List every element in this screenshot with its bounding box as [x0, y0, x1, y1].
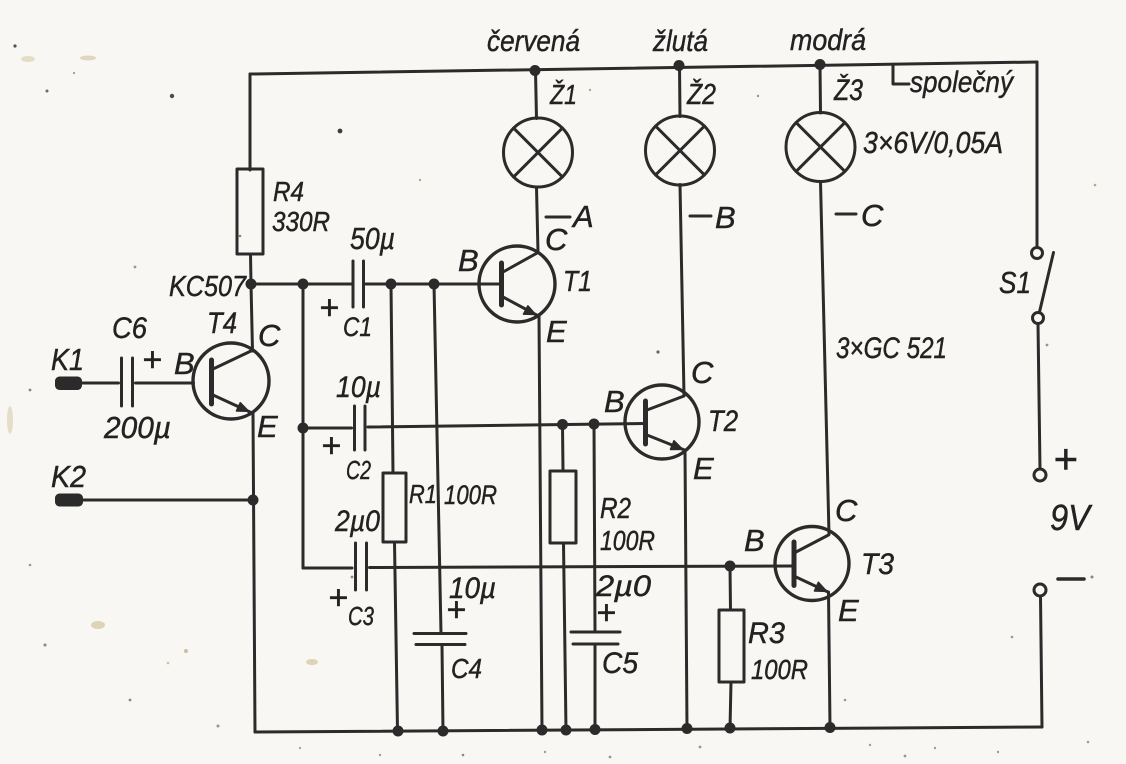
wire line3 right of C3 to T3 base: [370, 566, 793, 568]
wire lamp Z3 stem: [819, 64, 823, 113]
switch S1: [1032, 248, 1054, 324]
terminal K1: [55, 377, 82, 391]
svg-text:K1: K1: [51, 342, 84, 377]
svg-text:B: B: [715, 200, 736, 235]
svg-text:T4: T4: [207, 307, 237, 340]
wire R3 top feed: [729, 566, 733, 610]
wire top supply rail: [250, 62, 1037, 74]
battery connector 9V: [1034, 469, 1084, 596]
svg-text:10µ: 10µ: [336, 371, 381, 404]
svg-text:Ž2: Ž2: [686, 78, 716, 111]
node dot rail / T2 emitter: [682, 723, 693, 734]
transistor T4: [193, 343, 269, 419]
svg-text:100R: 100R: [600, 525, 655, 556]
svg-text:R3: R3: [748, 617, 785, 650]
svg-text:+: +: [328, 579, 348, 617]
svg-text:C: C: [861, 198, 884, 233]
svg-text:červená: červená: [487, 25, 580, 58]
capacitor C5: [571, 632, 620, 644]
svg-text:B: B: [604, 384, 625, 419]
lamp Z3: [786, 113, 855, 182]
resistor R3: [719, 610, 744, 682]
wire lamp Z2 to T2 collector: [680, 185, 684, 396]
svg-text:+: +: [596, 594, 616, 632]
wire R1 top feed: [391, 284, 393, 473]
node dot T1 base / C4: [429, 279, 440, 290]
wire T1 emitter to ground rail: [539, 316, 542, 730]
node dot line2 / C5: [589, 419, 600, 430]
svg-text:50µ: 50µ: [350, 221, 395, 256]
svg-text:200µ: 200µ: [103, 410, 171, 445]
label dash B: [690, 215, 711, 218]
wire battery minus down to rail: [1041, 596, 1043, 727]
node dot rail / C5: [590, 724, 601, 735]
lamp Z1: [504, 118, 573, 187]
terminal K2: [55, 494, 83, 507]
svg-text:C2: C2: [346, 455, 371, 485]
svg-text:Ž3: Ž3: [833, 74, 863, 107]
wire lamp Z2 stem: [678, 66, 682, 117]
svg-text:R4: R4: [273, 176, 304, 207]
svg-text:modrá: modrá: [790, 24, 866, 57]
node dot line3 / R3: [725, 561, 736, 572]
svg-text:E: E: [693, 451, 714, 486]
svg-text:T3: T3: [861, 548, 894, 581]
svg-text:B: B: [458, 243, 479, 278]
svg-text:E: E: [257, 409, 278, 444]
svg-text:C3: C3: [348, 601, 374, 631]
label dash A: [546, 216, 570, 219]
wire R4 bottom to node: [249, 254, 253, 284]
node dot rail / R1: [393, 726, 404, 737]
capacitor C2: [355, 406, 366, 450]
svg-text:B: B: [744, 523, 765, 558]
wire K2 to emitter column: [83, 499, 253, 502]
node dot KC507 node x303: [298, 279, 309, 290]
wire T4 emitter down left side: [253, 413, 255, 732]
svg-text:330R: 330R: [272, 206, 330, 237]
capacitor C1: [353, 261, 364, 307]
wire R3 bottom: [730, 682, 731, 728]
wire K1 to C6: [82, 382, 119, 385]
wire lamp Z3 to T3 collector: [821, 182, 830, 535]
svg-text:E: E: [546, 314, 567, 349]
svg-text:+: +: [142, 341, 162, 379]
wire R2 bottom: [564, 543, 567, 730]
node dot rail / C4: [438, 726, 449, 737]
wire right vertical to switch: [1036, 62, 1039, 248]
svg-text:C: C: [545, 222, 568, 257]
wire T3 emitter to ground rail: [829, 592, 831, 728]
svg-text:100R: 100R: [751, 654, 808, 685]
transistor T2: [625, 385, 699, 459]
wire line2 right of C2 to T2 base: [368, 424, 645, 428]
svg-text:S1: S1: [999, 265, 1031, 300]
svg-text:C5: C5: [602, 647, 638, 680]
node dot T1 base / R1: [386, 279, 397, 290]
svg-text:3×GC 521: 3×GC 521: [836, 332, 947, 365]
wire lamp Z1 stem: [536, 71, 537, 119]
node dot rail / R2: [561, 725, 572, 736]
svg-text:C: C: [258, 318, 281, 353]
node dot top rail / lamp Z3: [815, 59, 826, 70]
capacitor C4: [414, 634, 466, 645]
wire node line1 left of C1: [251, 283, 351, 286]
svg-text:C: C: [835, 493, 858, 528]
svg-text:žlutá: žlutá: [652, 25, 708, 58]
svg-text:E: E: [838, 593, 859, 628]
svg-text:B: B: [174, 346, 195, 381]
node dot K2 emitter column: [248, 495, 259, 506]
svg-text:2µ0: 2µ0: [334, 505, 380, 538]
node dot rail / T3 emitter: [825, 722, 836, 733]
svg-text:A: A: [571, 199, 594, 234]
capacitor C3: [356, 543, 367, 590]
resistor R1: [383, 473, 406, 542]
bracket for spolecny label: [893, 65, 909, 84]
svg-text:100R: 100R: [444, 480, 497, 510]
lamp Z2: [646, 116, 715, 185]
svg-text:+: +: [446, 591, 466, 629]
wire T4 collector: [251, 284, 253, 351]
node dot top rail / lamp Z1: [530, 65, 541, 76]
svg-text:C4: C4: [451, 653, 482, 684]
wire node line1 right of C1 to T1 base: [366, 283, 502, 286]
svg-text:T2: T2: [708, 405, 738, 438]
resistor R2: [550, 471, 576, 543]
svg-text:R2: R2: [600, 493, 631, 525]
wire T2 emitter to ground rail: [685, 450, 687, 729]
wire vertical x303 from node to line3: [302, 284, 305, 568]
svg-text:KC507: KC507: [169, 271, 248, 303]
svg-text:+: +: [321, 427, 341, 465]
wire R1 bottom: [395, 542, 398, 731]
svg-text:3×6V/0,05A: 3×6V/0,05A: [863, 125, 1003, 160]
wire R2 top feed: [561, 425, 565, 472]
svg-text:C1: C1: [343, 312, 372, 342]
node dot rail / T1 emitter: [537, 725, 548, 736]
label dash C: [836, 213, 856, 216]
transistor T3: [775, 527, 849, 601]
svg-text:T1: T1: [563, 266, 592, 298]
capacitor C6: [122, 358, 133, 406]
resistor R4: [237, 169, 263, 254]
node dot line2 / R2: [557, 419, 568, 430]
svg-text:společný: společný: [910, 66, 1015, 99]
svg-text:R1: R1: [409, 479, 437, 509]
node dot line2 x303: [298, 423, 309, 434]
node dot top rail / lamp Z2: [674, 60, 685, 71]
svg-text:9V: 9V: [1050, 497, 1093, 538]
wire C6 to T4 base: [136, 382, 194, 385]
wire top-left vertical to R4: [249, 74, 252, 170]
transistor T1: [479, 246, 555, 322]
wire lamp Z1 to T1 collector: [537, 187, 539, 253]
wire switch to battery plus: [1038, 324, 1040, 470]
wire C5 bottom: [594, 645, 597, 730]
svg-text:C: C: [691, 355, 714, 390]
svg-text:K2: K2: [51, 459, 86, 494]
node dot rail / R3: [725, 723, 736, 734]
svg-text:Ž1: Ž1: [549, 79, 577, 110]
wire line2 left of C2: [303, 427, 352, 430]
node dot KC507 node at R4: [246, 279, 257, 290]
wire C4 top feed from T1 base node: [434, 284, 441, 634]
wire C4 bottom: [442, 646, 443, 732]
wire line3 left of C3: [303, 567, 352, 570]
svg-text:+: +: [319, 289, 339, 327]
wire bottom ground rail: [255, 727, 1042, 732]
svg-text:+: +: [1053, 435, 1078, 482]
wire C5 top feed: [594, 424, 595, 631]
